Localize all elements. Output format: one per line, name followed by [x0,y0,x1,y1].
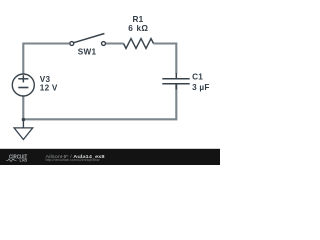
svg-text:http://circuitlab.com/c2lrcrkq: http://circuitlab.com/c2lrcrkqhzww [46,158,101,162]
svg-text:3 µF: 3 µF [192,83,210,92]
svg-text:SW1: SW1 [78,48,97,57]
svg-text:12 V: 12 V [40,83,58,92]
svg-text:R1: R1 [133,15,144,24]
svg-text:LAB: LAB [20,158,28,163]
svg-text:6 kΩ: 6 kΩ [128,24,148,33]
svg-text:C1: C1 [192,72,203,81]
